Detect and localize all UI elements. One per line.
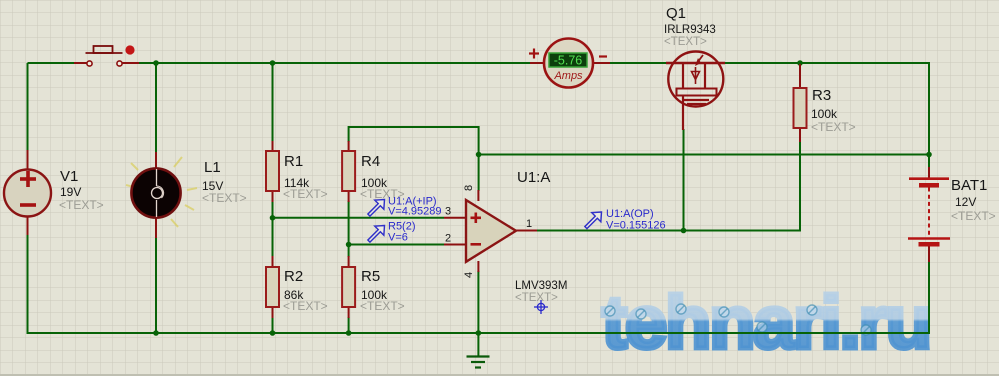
battery V1 pins — [27, 150, 29, 235]
svg-text:BAT1: BAT1 — [951, 177, 987, 194]
svg-text:U1:A(OP): U1:A(OP) — [606, 208, 654, 220]
svg-text:1: 1 — [526, 218, 532, 230]
svg-text:Amps: Amps — [553, 70, 583, 82]
probe label R5(2) — [388, 221, 416, 244]
wire R1-R2 branch — [272, 63, 274, 333]
svg-text:<TEXT>: <TEXT> — [202, 191, 247, 205]
resistor R2 — [266, 267, 279, 307]
svg-text:V=4.95289: V=4.95289 — [388, 206, 442, 218]
svg-text:R4: R4 — [361, 153, 380, 170]
svg-text:<TEXT>: <TEXT> — [360, 299, 405, 313]
node junction R5 bottom — [346, 330, 352, 336]
svg-text:<TEXT>: <TEXT> — [283, 299, 328, 313]
node junction R2 bottom — [270, 330, 276, 336]
wire pin4 to ground rail — [477, 271, 479, 356]
node junction gate-output — [681, 228, 687, 234]
resistor R4 — [342, 151, 355, 191]
label R3 — [811, 87, 856, 134]
node junction L1 top — [153, 60, 159, 66]
svg-text:19V: 19V — [60, 185, 81, 199]
probe label U1:A(+IP) — [388, 196, 442, 218]
svg-text:U1:A: U1:A — [517, 169, 550, 186]
ammeter pins — [530, 62, 610, 64]
svg-text:8: 8 — [463, 185, 475, 191]
svg-text:<TEXT>: <TEXT> — [811, 120, 856, 134]
svg-text:IRLR9343: IRLR9343 — [664, 24, 716, 36]
label R2 — [283, 268, 328, 313]
resistor R3 — [794, 88, 807, 128]
svg-text:<TEXT>: <TEXT> — [283, 187, 328, 201]
svg-text:-5.76: -5.76 — [554, 54, 583, 68]
origin marker U1 — [534, 300, 548, 314]
switch SW — [86, 45, 135, 66]
lamp L1 pins — [155, 152, 157, 238]
resistor R1 — [266, 151, 279, 191]
label LMV393M — [515, 280, 567, 304]
wire top rail ammeter-to-Q1 segment — [610, 62, 667, 64]
svg-text:<TEXT>: <TEXT> — [515, 292, 558, 304]
svg-text:3: 3 — [445, 206, 451, 218]
svg-text:V1: V1 — [60, 168, 78, 185]
svg-text:R2: R2 — [284, 268, 303, 285]
wire R4-R5 branch — [348, 201, 350, 333]
probe R5(2) — [368, 226, 385, 243]
label BAT1 — [951, 177, 996, 223]
label R5 — [360, 268, 405, 313]
svg-text:R5: R5 — [361, 268, 380, 285]
label V1 — [59, 168, 104, 212]
svg-text:100k: 100k — [811, 107, 838, 121]
node junction pin8 — [476, 152, 482, 158]
svg-text:2: 2 — [445, 233, 451, 245]
svg-text:12V: 12V — [955, 195, 976, 209]
node junction L1 bottom — [153, 330, 159, 336]
wire left branch V1 — [27, 63, 29, 334]
probe U1:A(+IP) — [368, 200, 385, 217]
ground — [467, 357, 490, 368]
svg-text:4: 4 — [463, 272, 475, 278]
battery BAT1 — [908, 179, 950, 247]
svg-text:R3: R3 — [812, 87, 831, 104]
wire R4 top to pin8 corner — [349, 127, 479, 191]
battery V1 — [4, 170, 51, 217]
svg-text:V=6: V=6 — [388, 232, 408, 244]
svg-text:Q1: Q1 — [666, 5, 686, 22]
wire top rail left segment — [28, 62, 75, 64]
label Q1 — [664, 5, 716, 48]
transistor Q1 — [666, 52, 725, 131]
node junction R3 top — [797, 60, 803, 66]
node junction ground rail — [476, 330, 482, 336]
op-amp U1 pin stubs — [444, 190, 537, 272]
probe U1:A(OP) — [585, 212, 602, 229]
svg-text:V=0.155126: V=0.155126 — [606, 220, 666, 232]
watermark tehnari.ru — [602, 281, 930, 364]
wire Vcc rail y154 — [479, 154, 929, 156]
wire R3 bottom to output — [799, 141, 801, 232]
resistor R5 pins — [348, 256, 350, 318]
resistor R3 pins — [799, 64, 801, 142]
svg-text:<TEXT>: <TEXT> — [951, 209, 996, 223]
wire BAT1 bottom — [928, 261, 930, 334]
wire non-inverting input — [273, 217, 445, 219]
switch SW pins — [74, 62, 139, 64]
wire bottom rail — [28, 332, 930, 334]
wire op-amp output — [536, 230, 800, 232]
node junction BAT1 top — [926, 152, 932, 158]
label R4 — [360, 153, 405, 201]
op-amp U1:A — [466, 200, 516, 262]
probe label U1:A(OP) — [606, 208, 666, 232]
resistor R5 — [342, 267, 355, 307]
lamp L1 — [131, 168, 180, 217]
label L1 — [202, 159, 247, 205]
lamp L1 rays — [126, 157, 197, 227]
wire L1 branch — [155, 63, 157, 333]
svg-text:<TEXT>: <TEXT> — [664, 36, 707, 48]
resistor R1 pins — [272, 141, 274, 202]
battery BAT1 pins — [928, 167, 930, 262]
resistor R2 pins — [272, 256, 274, 318]
wire inverting input — [349, 244, 444, 246]
label R1 — [283, 153, 328, 201]
node junction divider R1R2 — [270, 215, 276, 221]
node junction divider R4R5 — [346, 242, 352, 248]
svg-text:tehnari.ru: tehnari.ru — [602, 281, 930, 364]
ammeter — [529, 39, 607, 88]
svg-text:<TEXT>: <TEXT> — [59, 198, 104, 212]
resistor R4 pins — [348, 141, 350, 202]
wire top rail right segment — [725, 63, 929, 168]
svg-text:R1: R1 — [284, 153, 303, 170]
node junction R1 top — [270, 60, 276, 66]
svg-text:LMV393M: LMV393M — [515, 280, 567, 292]
wire Q1 gate — [683, 129, 685, 231]
wire top rail middle segment — [139, 62, 530, 64]
svg-text:L1: L1 — [204, 159, 221, 176]
